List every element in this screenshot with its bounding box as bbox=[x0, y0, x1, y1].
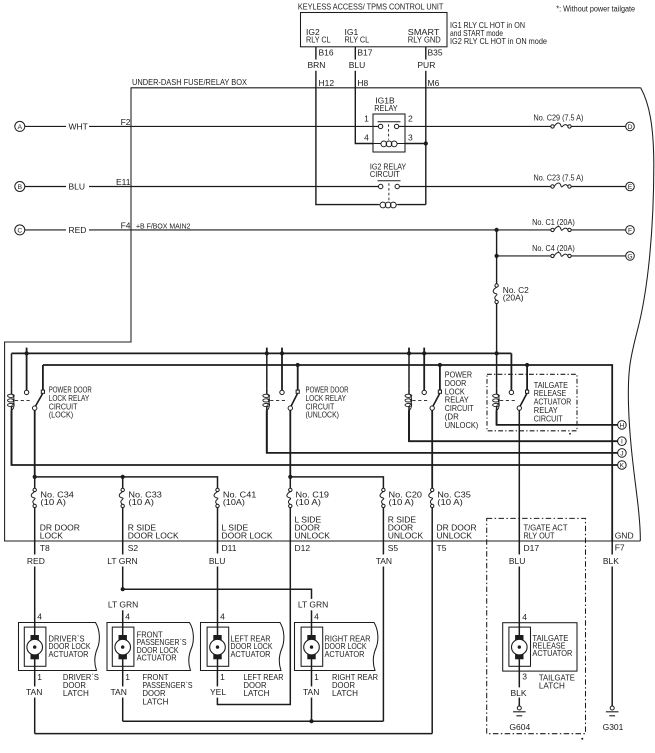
wire tailgate latch upper bbox=[518, 671, 520, 687]
wire B BLU segment left bbox=[25, 186, 66, 188]
svg-text:UNDER-DASH FUSE/RELAY BOX: UNDER-DASH FUSE/RELAY BOX bbox=[132, 77, 247, 87]
svg-text:BLK: BLK bbox=[603, 556, 619, 566]
svg-text:No. C1 (20A): No. C1 (20A) bbox=[532, 217, 575, 227]
pin D12 bbox=[295, 543, 311, 553]
motor left rear door lock actuator bbox=[207, 627, 229, 666]
node B connector circle bbox=[15, 182, 25, 192]
svg-text:B: B bbox=[18, 184, 23, 191]
bus1 +B from fuse C2 horizontal bbox=[12, 352, 512, 354]
power door lock relay circuit (UNLOCK) coil feed bbox=[266, 353, 268, 388]
svg-text:G: G bbox=[627, 253, 632, 260]
svg-text:(10 A): (10 A) bbox=[128, 497, 154, 507]
wire B35 PUR lower bbox=[425, 71, 427, 88]
wire IG1B pin 3 to M6 wire bbox=[405, 143, 426, 145]
left rear door lock actuator box bbox=[201, 623, 284, 671]
node G connector circle bbox=[626, 252, 635, 261]
svg-text:TAN: TAN bbox=[376, 556, 392, 566]
pin D11 bbox=[222, 543, 237, 553]
tailgate release actuator relay dash-dot box bbox=[487, 374, 577, 431]
junction dot M6/pin3 bbox=[424, 141, 428, 145]
svg-text:RLY CL: RLY CL bbox=[306, 35, 331, 45]
wire PUR label bbox=[417, 60, 435, 70]
wire LOCK blade output down bbox=[34, 410, 36, 477]
svg-text:RLY GND: RLY GND bbox=[408, 35, 441, 45]
IG2 relay contact bar bbox=[378, 180, 401, 182]
svg-text:LATCH: LATCH bbox=[244, 688, 270, 698]
wire front passenger latch upper bbox=[122, 671, 124, 687]
svg-text:G604: G604 bbox=[509, 722, 530, 732]
ground G301 bbox=[611, 567, 613, 707]
svg-text:No. C4 (20A): No. C4 (20A) bbox=[532, 243, 575, 253]
label right rear door lock actuator bbox=[325, 633, 371, 658]
wire H bus tailgate coil to node H bbox=[497, 410, 618, 425]
svg-text:ACTUATOR: ACTUATOR bbox=[325, 649, 365, 659]
power door lock relay (UNLOCK) label bbox=[306, 385, 349, 420]
wire driver's latch lower bbox=[34, 698, 36, 734]
wire color BLK tailgate bbox=[511, 688, 527, 698]
fuse C20 (10A) bbox=[382, 488, 385, 491]
wire branch down from C to C4 line bbox=[496, 230, 498, 256]
wire through tailgate actuator bbox=[518, 623, 520, 671]
power door lock relay circuit (LOCK) coil feed bbox=[11, 353, 13, 388]
wire UNLOCK blade output down bbox=[289, 410, 291, 477]
svg-text:3: 3 bbox=[522, 671, 527, 681]
svg-text:ACTUATOR: ACTUATOR bbox=[137, 653, 177, 663]
svg-text:TAN: TAN bbox=[303, 687, 319, 697]
big dash-dot box without power tailgate bbox=[487, 518, 586, 733]
wire C34 feed down bbox=[34, 477, 36, 488]
svg-text:F2: F2 bbox=[121, 117, 131, 127]
pin 1 label bbox=[364, 114, 369, 124]
svg-text:1: 1 bbox=[125, 672, 130, 682]
wire color TAN driver bbox=[26, 687, 42, 697]
svg-text:(10 A): (10 A) bbox=[296, 497, 322, 507]
label left rear door latch bbox=[244, 672, 284, 698]
under-dash fuse/relay box outline bbox=[5, 88, 641, 541]
svg-text:LOCK: LOCK bbox=[40, 531, 63, 541]
wire C RED to fuse C1 bbox=[89, 229, 551, 231]
bus2 ground return horizontal to F7 bbox=[43, 365, 612, 541]
wire fuse C4 to node G bbox=[571, 255, 625, 257]
pin 4 label bbox=[364, 133, 369, 143]
label driver's door latch bbox=[63, 672, 99, 698]
fuse No. C1 (20A) bbox=[532, 217, 575, 227]
pin 4 label left rear actuator bbox=[220, 611, 225, 621]
svg-text:ACTUATOR: ACTUATOR bbox=[532, 648, 572, 658]
pin D17 bbox=[524, 543, 540, 553]
motor right rear door lock actuator bbox=[301, 627, 323, 666]
IG1B coil bbox=[373, 143, 381, 145]
svg-text:D11: D11 bbox=[222, 543, 237, 553]
svg-text:1: 1 bbox=[314, 672, 319, 682]
junction dot UNLOCK feed at C19 bbox=[288, 475, 292, 479]
stray dot near relay dash-dot box bbox=[569, 433, 571, 435]
svg-text:4: 4 bbox=[37, 611, 42, 621]
svg-text:1: 1 bbox=[364, 114, 369, 124]
wire fuse C1 to node F bbox=[571, 229, 625, 231]
keyless access/TPMS control unit box bbox=[301, 13, 448, 47]
fuse C19 (10A) bbox=[289, 488, 292, 491]
svg-text:B16: B16 bbox=[319, 48, 334, 58]
label front passenger's door lock actuator bbox=[137, 630, 187, 663]
pin 1 label left rear actuator bbox=[220, 672, 225, 682]
power door lock relay (LOCK) label bbox=[49, 385, 92, 420]
svg-text:4: 4 bbox=[125, 611, 130, 621]
svg-text:T5: T5 bbox=[437, 543, 447, 553]
svg-text:D12: D12 bbox=[295, 543, 311, 553]
label LT GRN front passenger bbox=[108, 599, 138, 609]
label right rear door latch bbox=[332, 672, 378, 698]
wire C19 feed down bbox=[289, 477, 291, 488]
fuse No. C23 (7.5 A) bbox=[534, 173, 584, 183]
svg-text:DOOR LOCK: DOOR LOCK bbox=[222, 531, 273, 541]
fuse No. C4 (20A) bbox=[532, 243, 575, 253]
IG2 relay dashed link bbox=[388, 183, 390, 201]
fuse C33 (10A) bbox=[121, 488, 124, 491]
wire C RED segment left bbox=[25, 229, 66, 231]
svg-text:A: A bbox=[18, 124, 23, 131]
svg-text:(UNLOCK): (UNLOCK) bbox=[306, 410, 340, 420]
node K connector circle bbox=[618, 461, 627, 470]
svg-text:(LOCK): (LOCK) bbox=[49, 410, 74, 420]
wire right rear pin4 below label bbox=[311, 610, 313, 622]
label tailgate latch bbox=[539, 673, 575, 691]
svg-text:LATCH: LATCH bbox=[332, 688, 358, 698]
wire DR UNLOCK blade output down to fuse C35 bbox=[431, 410, 433, 488]
IG1B contact circles bbox=[378, 124, 382, 128]
under-dash box torn right edge curve bbox=[628, 88, 653, 541]
svg-text:RED: RED bbox=[69, 225, 87, 235]
wire B from IG2 relay contact to fuse C23 bbox=[399, 186, 550, 188]
svg-text:WHT: WHT bbox=[69, 122, 88, 132]
under-dash fuse/relay box title bbox=[132, 77, 247, 87]
wire down to fuse C2 bbox=[496, 256, 498, 284]
svg-text:CIRCUIT: CIRCUIT bbox=[370, 169, 400, 179]
bus1 wire stubs bbox=[26, 348, 28, 354]
front passenger's door lock actuator box bbox=[107, 623, 193, 671]
stray dot below tailgate dash-dot box bbox=[581, 738, 583, 740]
node A connector circle bbox=[15, 121, 25, 131]
pin H8 bbox=[357, 78, 368, 88]
svg-text:M6: M6 bbox=[428, 78, 440, 88]
node C connector circle bbox=[15, 225, 25, 235]
svg-text:BLK: BLK bbox=[511, 688, 527, 698]
wire BLU label bbox=[349, 60, 366, 70]
label T/GATE ACT RLY OUT bbox=[524, 523, 568, 541]
wire H12 down to IG2 coil bbox=[316, 88, 379, 205]
wire I bus DR UNLOCK coil to node I bbox=[409, 410, 618, 441]
svg-text:E11: E11 bbox=[116, 177, 131, 187]
svg-text:CIRCUIT: CIRCUIT bbox=[534, 413, 563, 423]
relay UNLOCK components bbox=[266, 389, 268, 394]
label left rear door lock actuator bbox=[231, 633, 273, 658]
wire M6 to IG2 coil right bbox=[398, 204, 426, 206]
wire color BLU bbox=[209, 556, 226, 566]
fuse No. C29 (7.5 A) bbox=[534, 113, 584, 123]
wire to fuse C4 bbox=[497, 255, 551, 257]
wire color LT GRN bbox=[107, 556, 137, 566]
wire fuse C2 down to tailgate relay coil bbox=[496, 353, 498, 388]
junction dot LOCK feed at C34 bbox=[33, 475, 37, 479]
node I connector circle bbox=[618, 437, 627, 446]
svg-text:K: K bbox=[620, 462, 625, 469]
wire M6 down bbox=[425, 88, 427, 205]
wire A from IG1B pin 2 to fuse C29 bbox=[399, 125, 551, 127]
svg-text:2: 2 bbox=[408, 114, 413, 124]
bus1 junction dots bbox=[25, 351, 29, 355]
svg-text:H12: H12 bbox=[319, 78, 335, 88]
wire color BLK for F7 bbox=[603, 556, 619, 566]
pin 4 label front passenger actuator bbox=[125, 611, 130, 621]
node H connector circle bbox=[618, 421, 627, 430]
svg-text:YEL: YEL bbox=[210, 687, 226, 697]
svg-text:B17: B17 bbox=[357, 48, 372, 58]
wire C33 fuse down to LT GRN junction bbox=[122, 508, 124, 555]
IG1B dashed link bbox=[388, 124, 390, 139]
wire front passenger pin4 below label bbox=[122, 610, 124, 622]
node D connector circle bbox=[626, 122, 635, 131]
svg-text:PUR: PUR bbox=[417, 60, 435, 70]
svg-text:*: Without power tailgate: *: Without power tailgate bbox=[556, 5, 635, 14]
wire C35/T5 down to bottom run bbox=[431, 508, 433, 734]
right rear door lock actuator box bbox=[295, 623, 378, 671]
wire right rear latch upper bbox=[311, 671, 313, 687]
svg-text:(10 A): (10 A) bbox=[437, 497, 463, 507]
svg-text:UNLOCK: UNLOCK bbox=[295, 531, 331, 541]
svg-text:+B F/BOX MAIN2: +B F/BOX MAIN2 bbox=[136, 221, 191, 230]
pin 1 label front passenger actuator bbox=[125, 672, 130, 682]
IG2 relay circuit label bbox=[370, 162, 407, 180]
svg-text:3: 3 bbox=[408, 133, 413, 143]
svg-text:RELAY: RELAY bbox=[374, 103, 398, 113]
svg-text:(10 A): (10 A) bbox=[389, 497, 415, 507]
wire driver's latch upper bbox=[34, 671, 36, 687]
label driver's door lock actuator bbox=[49, 633, 91, 658]
IG2 relay contact circles bbox=[379, 184, 383, 188]
IG1B relay label bbox=[374, 95, 398, 112]
wire color RED bbox=[27, 556, 45, 566]
svg-text:UNLOCK): UNLOCK) bbox=[445, 420, 479, 430]
pin 3 label tailgate actuator bbox=[522, 671, 527, 681]
junction dot right rear latch pin1 bbox=[309, 719, 313, 723]
wire B16 BRN lower bbox=[315, 71, 317, 88]
ground G604 bbox=[518, 698, 520, 707]
pin F7 bbox=[615, 542, 625, 552]
pin 2 label bbox=[408, 114, 413, 124]
motor front passenger's door lock actuator bbox=[112, 627, 134, 666]
pin 1 label driver's actuator bbox=[37, 672, 42, 682]
pin H12 bbox=[319, 78, 335, 88]
wire left rear latch upper bbox=[216, 671, 218, 687]
svg-text:1: 1 bbox=[220, 672, 225, 682]
wire right rear latch lower bbox=[311, 698, 313, 722]
wire B17 BLU upper bbox=[354, 47, 356, 60]
svg-text:4: 4 bbox=[522, 612, 527, 622]
wire A WHT segment left bbox=[25, 125, 66, 127]
svg-text:LATCH: LATCH bbox=[143, 696, 169, 706]
svg-text:(10A): (10A) bbox=[223, 497, 245, 507]
wire C20/S5 down to bottom run bbox=[382, 567, 384, 722]
wire H8 down to IG1B pin 4 bbox=[355, 88, 373, 144]
svg-text:C: C bbox=[17, 227, 22, 234]
svg-text:T8: T8 bbox=[40, 543, 50, 553]
svg-text:RLY CL: RLY CL bbox=[345, 35, 370, 45]
power door lock relay circuit (DR UNLOCK) coil feed bbox=[408, 353, 410, 388]
svg-text:No. C23 (7.5 A): No. C23 (7.5 A) bbox=[534, 173, 584, 183]
pin B16 bbox=[319, 48, 334, 58]
svg-text:BRN: BRN bbox=[308, 60, 326, 70]
svg-text:LT GRN: LT GRN bbox=[108, 599, 138, 609]
pin E11 bbox=[116, 177, 131, 187]
svg-text:(10 A): (10 A) bbox=[40, 497, 66, 507]
junction dot C4 branch bbox=[495, 254, 499, 258]
motor tailgate release actuator bbox=[509, 627, 531, 666]
pin M6 bbox=[428, 78, 440, 88]
label front passenger's door latch bbox=[143, 672, 193, 706]
pin 4 label driver's actuator bbox=[37, 611, 42, 621]
svg-text:F4: F4 bbox=[121, 220, 131, 230]
wire B17 BLU lower bbox=[354, 71, 356, 88]
pin T5 bbox=[437, 543, 447, 553]
relay DR UNLOCK components bbox=[408, 389, 410, 394]
wire through right rear actuator bbox=[311, 623, 313, 671]
svg-text:ACTUATOR: ACTUATOR bbox=[231, 649, 271, 659]
svg-text:1: 1 bbox=[37, 672, 42, 682]
wire fuse C23 to node E bbox=[571, 186, 625, 188]
wire color TAN right rear bbox=[303, 687, 319, 697]
wire B16 BRN upper bbox=[315, 47, 317, 60]
wire F7 BLK down bbox=[611, 541, 613, 555]
driver's door lock actuator box bbox=[19, 623, 100, 671]
svg-text:TAN: TAN bbox=[111, 687, 127, 697]
wire color TAN front passenger bbox=[111, 687, 127, 697]
svg-text:4: 4 bbox=[220, 611, 225, 621]
node J connector circle bbox=[618, 449, 627, 458]
svg-text:H8: H8 bbox=[357, 78, 368, 88]
keyless access control unit title bbox=[298, 1, 444, 11]
svg-text:RLY OUT: RLY OUT bbox=[524, 531, 555, 541]
svg-text:BLU: BLU bbox=[349, 60, 366, 70]
wire J bus UNLOCK coil to node J bbox=[267, 410, 618, 453]
IG1B contact bar bbox=[378, 121, 401, 123]
wire C33 feed down bbox=[122, 477, 124, 488]
node F connector circle bbox=[626, 226, 635, 235]
svg-text:DOOR LOCK: DOOR LOCK bbox=[128, 531, 179, 541]
fuse C41 (10A) bbox=[216, 488, 219, 491]
wire through front passenger actuator bbox=[122, 623, 124, 671]
wire BRN label bbox=[308, 60, 326, 70]
svg-text:GND: GND bbox=[615, 531, 634, 541]
svg-text:B35: B35 bbox=[428, 48, 443, 58]
wire fuse C2 down to bus bbox=[496, 304, 498, 354]
pin 4 label right rear actuator bbox=[314, 611, 319, 621]
svg-text:S5: S5 bbox=[388, 543, 399, 553]
pin S5 bbox=[388, 543, 399, 553]
svg-text:UNLOCK: UNLOCK bbox=[388, 531, 424, 541]
node E connector circle bbox=[626, 182, 635, 191]
label GND bbox=[615, 531, 634, 541]
wire D17 to tailgate actuator pin 4 bbox=[518, 567, 520, 623]
wire C34 fuse to driver's actuator bbox=[34, 508, 36, 555]
relay IG1B box bbox=[373, 114, 405, 152]
svg-text:4: 4 bbox=[364, 133, 369, 143]
pin F2 bbox=[121, 117, 131, 127]
svg-text:TAN: TAN bbox=[26, 687, 42, 697]
svg-text:(20A): (20A) bbox=[503, 293, 524, 303]
svg-text:UNLOCK: UNLOCK bbox=[437, 531, 473, 541]
relay LOCK components bbox=[11, 389, 13, 394]
pin 3 label bbox=[408, 133, 413, 143]
junction dot LOCK feed at C33 bbox=[121, 475, 125, 479]
wire front passenger latch lower bbox=[122, 698, 124, 722]
svg-text:E: E bbox=[628, 184, 633, 191]
pin B17 bbox=[357, 48, 372, 58]
bottom run T5 to driver's latch pin 1 bbox=[35, 733, 433, 735]
bus2 junction dots bbox=[296, 363, 300, 367]
svg-text:G301: G301 bbox=[603, 722, 624, 732]
wire color TAN bbox=[376, 556, 392, 566]
svg-text:No. C29 (7.5 A): No. C29 (7.5 A) bbox=[534, 113, 584, 123]
wire B35 PUR upper bbox=[425, 47, 427, 60]
svg-text:S2: S2 bbox=[128, 543, 139, 553]
svg-text:F7: F7 bbox=[615, 542, 625, 552]
svg-text:LATCH: LATCH bbox=[539, 681, 565, 691]
wire TAILGATE blade output down to D17 bbox=[518, 410, 520, 554]
pin 4 label tailgate actuator bbox=[522, 612, 527, 622]
svg-text:RED: RED bbox=[27, 556, 45, 566]
junction dot wire C / fuse C2 branch bbox=[495, 228, 499, 232]
svg-text:H: H bbox=[619, 422, 624, 429]
svg-text:LT GRN: LT GRN bbox=[298, 599, 328, 609]
svg-text:BLU: BLU bbox=[509, 556, 526, 566]
tailgate release actuator relay label bbox=[534, 380, 572, 424]
bottom run S5 to front passenger latch pin 1 bbox=[123, 720, 384, 722]
svg-text:I: I bbox=[621, 439, 623, 446]
note: without power tailgate bbox=[556, 5, 635, 14]
svg-text:BLU: BLU bbox=[209, 556, 226, 566]
pin F4 bbox=[121, 220, 131, 230]
svg-text:LATCH: LATCH bbox=[63, 688, 89, 698]
svg-text:KEYLESS ACCESS/ TPMS CONTROL U: KEYLESS ACCESS/ TPMS CONTROL UNIT bbox=[298, 1, 444, 11]
svg-text:D17: D17 bbox=[524, 543, 540, 553]
fuse No. C2 (20A) vertical bbox=[495, 284, 498, 287]
junction dot LT GRN branch bbox=[121, 587, 125, 591]
svg-text:D: D bbox=[628, 124, 633, 131]
pin B35 bbox=[428, 48, 443, 58]
LOCK feed line to lock fuses bbox=[35, 477, 218, 488]
UNLOCK feed line to unlock fuses bbox=[290, 477, 383, 488]
svg-text:J: J bbox=[620, 450, 623, 457]
fuse C34 (10A) bbox=[33, 488, 36, 491]
wire color YEL left rear bbox=[210, 687, 226, 697]
note: IG1/IG2 relay HOT modes bbox=[450, 20, 547, 46]
wire C19/D12 down and to left rear latch pin 1 bbox=[217, 508, 290, 705]
label LT GRN right rear bbox=[298, 599, 328, 609]
wire fuse C29 to node D bbox=[571, 125, 625, 127]
svg-text:4: 4 bbox=[314, 611, 319, 621]
wire C41 fuse to left rear actuator bbox=[217, 508, 219, 554]
relay TAILGATE components bbox=[496, 389, 498, 394]
svg-text:BLU: BLU bbox=[69, 182, 86, 192]
label +B F/BOX MAIN2 bbox=[136, 221, 191, 230]
wire LT GRN branch to right rear actuator bbox=[123, 589, 312, 599]
IG2 relay coil bbox=[379, 204, 380, 206]
svg-text:IG2 RLY CL HOT in ON mode: IG2 RLY CL HOT in ON mode bbox=[450, 36, 547, 46]
wire A WHT segment to IG1B relay pin 1 bbox=[89, 125, 378, 127]
pin S2 bbox=[128, 543, 139, 553]
pin 1 label right rear actuator bbox=[314, 672, 319, 682]
tailgate release actuator box bbox=[503, 623, 577, 671]
